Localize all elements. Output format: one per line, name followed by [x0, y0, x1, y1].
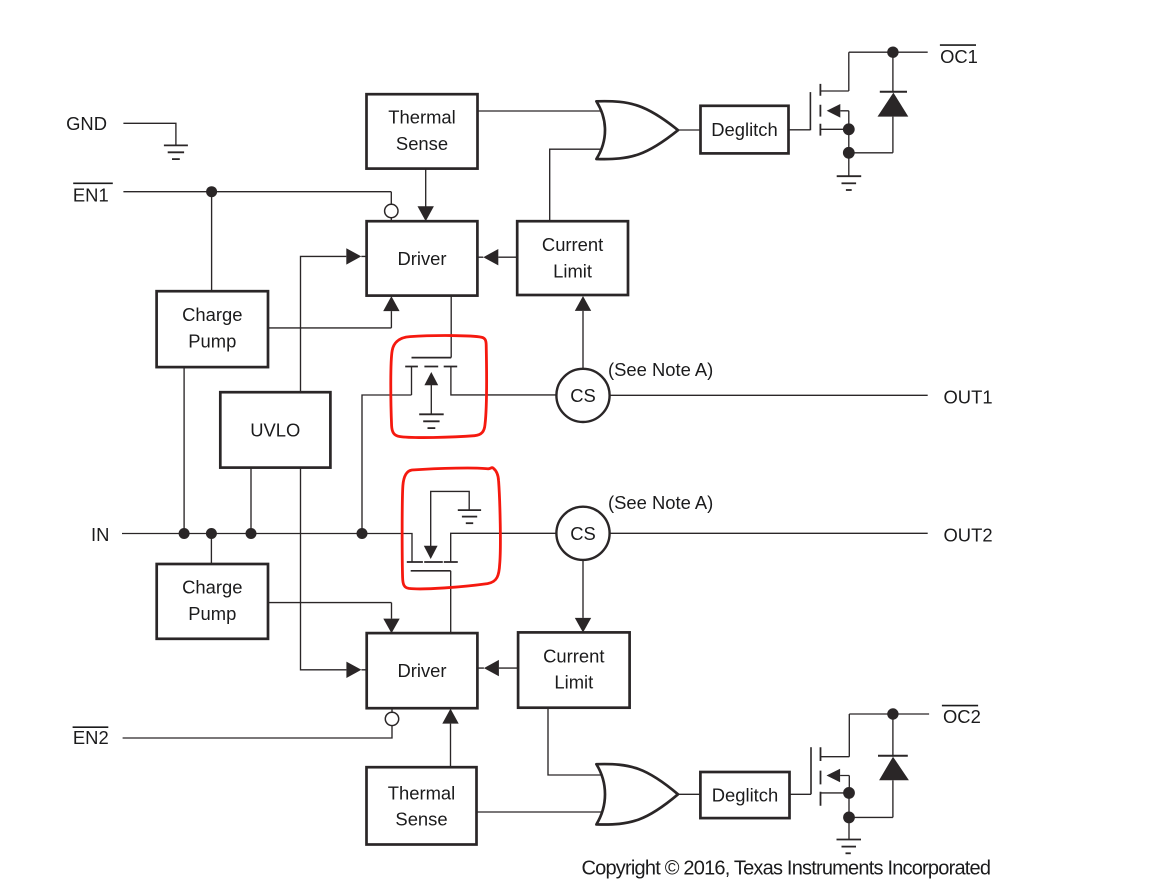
wire Q4 body to source — [840, 776, 849, 793]
svg-text:Deglitch: Deglitch — [712, 785, 778, 806]
wire Q2 gate to Driver 2 — [450, 571, 452, 633]
wire Q2 source to CS2 — [451, 533, 557, 562]
wire CS2 to Current Limit 2 — [582, 560, 584, 618]
block Driver 2 — [367, 633, 478, 708]
wire Thermal Sense 2 to OR gate 2 — [477, 811, 605, 813]
svg-text:CS: CS — [570, 523, 596, 544]
wire OUT1 net — [610, 394, 928, 396]
arrowhead into Driver 1 bottom — [383, 296, 399, 311]
wire bubble to Driver 2 — [391, 708, 393, 712]
current-sense CS1 circle — [556, 369, 609, 422]
transistor Q4 gate line — [810, 747, 812, 794]
or-gate U2 — [596, 764, 678, 824]
arrowhead into Current Limit 1 bottom — [575, 296, 591, 311]
wire UVLO to Driver 2 — [301, 468, 367, 670]
junction OC2 node — [887, 708, 898, 719]
diode D1 vertical wire — [892, 52, 894, 153]
ground symbol at GND pin — [164, 145, 188, 159]
junction IN node a — [179, 528, 190, 539]
wire Charge Pump 2 to Driver 2 — [268, 603, 392, 619]
pin label EN1 with overline — [73, 183, 113, 205]
wire EN2 horizontal — [123, 725, 392, 738]
arrowhead into Driver 1 right — [483, 249, 498, 265]
block Thermal Sense 2 — [367, 767, 477, 844]
wire Q4 source — [821, 792, 850, 794]
svg-text:Driver: Driver — [397, 248, 446, 269]
wire EN1 horizontal — [123, 191, 391, 193]
block Charge Pump 1 — [157, 291, 268, 367]
wire EN1 down to Driver 1 bubble — [390, 192, 392, 222]
red annotation loop around Q1 — [391, 336, 487, 438]
svg-text:Pump: Pump — [188, 330, 236, 351]
red annotation loop around Q2 — [402, 468, 500, 589]
block Charge Pump 2 — [157, 564, 268, 639]
arrowhead into Current Limit 2 top — [575, 618, 591, 633]
wire Deglitch 2 to Q4 gate — [790, 793, 812, 795]
svg-text:CS: CS — [570, 385, 596, 406]
svg-text:OUT1: OUT1 — [944, 387, 993, 408]
junction Q3 source node — [843, 123, 855, 135]
wire OC2 ground node down — [848, 817, 850, 839]
svg-text:GND: GND — [66, 113, 107, 134]
arrowhead into Driver 1 left — [346, 248, 361, 264]
block Current Limit 1 — [517, 221, 628, 295]
transistor Q1 body stem — [430, 385, 432, 414]
wire source to ground node OC2 — [848, 793, 850, 818]
wire Current Limit 1 to OR gate 1 — [550, 149, 604, 221]
svg-text:Limit: Limit — [553, 260, 592, 281]
svg-text:Deglitch: Deglitch — [711, 119, 777, 140]
arrowhead into Driver 2 right — [484, 660, 499, 676]
wire OUT2 net — [610, 532, 928, 534]
wire Thermal Sense 1 to Driver 1 — [425, 169, 427, 207]
junction IN node b — [206, 528, 217, 539]
inverter bubble Driver 2 enable — [385, 712, 398, 725]
block Deglitch 1 — [701, 106, 789, 154]
junction EN1 node — [206, 186, 217, 197]
arrowhead into Driver 2 left — [346, 662, 361, 678]
junction IN node c — [246, 528, 257, 539]
pin label OC1 with overline — [940, 45, 978, 67]
wire GND pin to ground — [123, 123, 175, 145]
wire OC2 net horizontal — [849, 713, 929, 715]
svg-text:UVLO: UVLO — [250, 419, 300, 440]
svg-text:IN: IN — [91, 524, 109, 545]
transistor Q1 gate plate — [412, 357, 452, 359]
svg-text:Charge: Charge — [182, 304, 242, 325]
ground symbol at Q1 body — [419, 414, 444, 428]
transistor Q3 body arrow — [827, 104, 841, 118]
junction IN node d — [357, 528, 368, 539]
wire OR gate 2 output to Deglitch 2 — [678, 793, 700, 795]
junction OC2 ground node — [843, 812, 855, 824]
block Thermal Sense 1 — [367, 94, 478, 168]
wire Q4 drain to OC2 net — [821, 714, 850, 757]
wire ground node down — [848, 153, 850, 176]
svg-text:(See Note A): (See Note A) — [608, 492, 713, 513]
ground symbol at Q2 body — [458, 510, 481, 523]
wire source to ground node — [848, 129, 850, 153]
ground symbol at Q3 source — [837, 176, 862, 190]
svg-text:Current: Current — [542, 234, 603, 255]
wire Current Limit 1 to Driver 1 — [477, 256, 517, 258]
pin label EN2 with overline — [73, 727, 109, 748]
arrowhead into Driver 2 top — [383, 619, 399, 634]
transistor Q2 body stem — [431, 491, 470, 546]
wire IN to Q1 drain — [362, 395, 412, 534]
svg-text:Charge: Charge — [182, 577, 242, 598]
junction OC1 node — [887, 47, 898, 58]
wire ground node to diode D1 anode — [849, 152, 893, 154]
diode D2 vertical wire — [892, 714, 894, 817]
wire UVLO to Driver 1 — [301, 256, 367, 392]
ground symbol at Q4 source — [837, 840, 862, 854]
transistor Q1 drain tick — [411, 367, 413, 396]
svg-text:Sense: Sense — [395, 809, 447, 830]
wire Driver 1 to Q1 gate — [450, 296, 452, 358]
MOSFET-Q2 (pass FET channel 2) — [407, 491, 481, 570]
block UVLO — [220, 392, 330, 467]
svg-text:Current: Current — [543, 646, 604, 667]
block Current Limit 2 — [518, 632, 630, 707]
wire CS1 to Current Limit 1 — [582, 311, 584, 369]
wire Thermal Sense 2 to Driver 2 — [450, 724, 452, 768]
diode D2 cathode bar — [878, 755, 908, 757]
wire ground node to diode D2 anode — [849, 816, 893, 818]
wire Deglitch 1 to Q3 gate — [789, 129, 811, 131]
wire OR gate 1 output to Deglitch 1 — [678, 129, 701, 131]
wire Current Limit 2 to OR gate 2 — [548, 708, 604, 775]
svg-text:Copyright © 2016, Texas Instru: Copyright © 2016, Texas Instruments Inco… — [582, 857, 992, 879]
svg-text:OC2: OC2 — [943, 706, 981, 727]
wire Q3 source — [820, 128, 848, 130]
wire Q1 source to CS1 — [451, 367, 557, 395]
transistor Q2 channel dashes — [407, 561, 458, 563]
junction Q4 source node — [843, 787, 855, 799]
wire OC1 net horizontal — [849, 51, 928, 53]
wire Charge Pump 1 to IN — [183, 367, 185, 533]
svg-text:Pump: Pump — [188, 603, 236, 624]
svg-text:(See Note A): (See Note A) — [608, 359, 713, 380]
block Deglitch 2 — [700, 772, 789, 818]
junction OC1 ground node — [843, 147, 855, 159]
wire IN net horizontal — [122, 534, 412, 563]
arrowhead into Driver 2 bottom — [442, 709, 458, 724]
block Driver 1 — [367, 221, 478, 295]
wire EN1 to Charge Pump 1 — [211, 192, 213, 292]
wire IN to Charge Pump 2 — [210, 534, 212, 565]
transistor Q4 channel dashes — [820, 747, 822, 806]
pin label OC2 with overline — [942, 706, 981, 728]
wire Current Limit 2 to Driver 2 — [477, 667, 518, 669]
svg-text:Thermal: Thermal — [388, 782, 455, 803]
transistor Q2 body arrow — [424, 546, 438, 559]
diode D2 triangle — [879, 757, 909, 781]
svg-text:Limit: Limit — [554, 672, 593, 693]
wire UVLO to IN net — [250, 468, 252, 534]
diode D1 cathode bar — [880, 91, 907, 93]
wire Q3 drain to OC1 net — [820, 52, 848, 91]
transistor Q3 gate line — [809, 92, 811, 130]
MOSFET-Q1 (pass FET channel 1) — [405, 358, 457, 429]
current-sense CS2 circle — [556, 507, 609, 560]
transistor Q1 channel dashes — [405, 366, 457, 368]
transistor Q4 body arrow — [827, 769, 841, 783]
svg-text:OC1: OC1 — [940, 46, 978, 67]
inverter bubble Driver 1 enable — [385, 204, 398, 217]
transistor Q1 body arrow — [424, 372, 438, 385]
wire Charge Pump 1 to Driver 1 — [268, 311, 391, 328]
svg-text:Driver: Driver — [397, 660, 446, 681]
transistor Q2 gate plate — [411, 570, 451, 572]
svg-text:OUT2: OUT2 — [944, 525, 993, 546]
wire Thermal Sense 1 to OR gate 1 — [477, 110, 604, 112]
transistor Q3 channel dashes — [819, 84, 821, 136]
svg-text:Thermal: Thermal — [388, 107, 455, 128]
svg-text:EN2: EN2 — [73, 727, 109, 748]
arrowhead into Driver 1 top — [418, 206, 434, 221]
or-gate U1 — [596, 101, 678, 159]
svg-text:EN1: EN1 — [73, 185, 109, 206]
wire Q3 body to source — [840, 111, 849, 130]
svg-text:Sense: Sense — [396, 133, 448, 154]
diode D1 triangle — [878, 93, 909, 117]
